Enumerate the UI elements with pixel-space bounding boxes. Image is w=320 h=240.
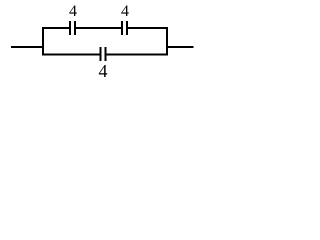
capacitor C1 value 4 (70, 21, 75, 35)
svg-text:4: 4 (121, 3, 129, 20)
wire top-middle segment (75, 27, 122, 29)
wire bottom-right segment (106, 54, 169, 56)
capacitor C3 value 4 (101, 47, 106, 61)
svg-text:4: 4 (99, 61, 108, 80)
wire top-left segment (42, 27, 70, 29)
svg-text:4: 4 (69, 3, 77, 20)
node left junction (42, 27, 44, 56)
wire left lead (11, 46, 43, 48)
capacitor C2 value 4 (122, 21, 127, 35)
wire top-right segment (127, 27, 168, 29)
wire right lead (167, 46, 194, 48)
node right junction (166, 27, 168, 56)
wire bottom-left segment (42, 54, 101, 56)
